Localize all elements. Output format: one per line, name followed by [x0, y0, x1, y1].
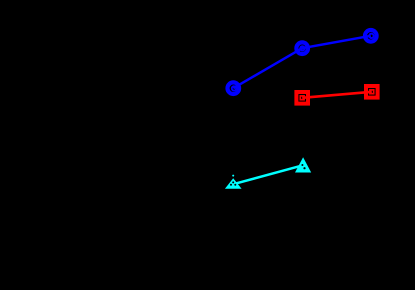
blue marker 2: small inner circle [300, 46, 304, 50]
blue marker 3: large open circle [365, 30, 377, 42]
blue marker 1: large open circle [228, 82, 240, 94]
cyan marker 1: filled triangle (left, squat) [225, 178, 242, 189]
cyan marker 2: interior dark dot lower [303, 167, 305, 169]
cyan marker 1: interior dark dot top [232, 181, 234, 183]
cyan data line (series 3) [233, 165, 303, 184]
blue marker 1: small inner circle [232, 86, 236, 90]
cyan marker 2: interior dark dot upper [301, 164, 303, 166]
cyan marker 1: interior dark dot right [234, 184, 236, 186]
blue marker 3: small inner circle [369, 34, 373, 38]
cyan marker 1: interior dark dot left [230, 184, 232, 186]
cyan marker 1: apex dot above [232, 175, 234, 177]
red marker 1: large open square [296, 92, 308, 104]
red marker 2: small inner square [370, 90, 374, 94]
red marker 1: small inner square [300, 96, 304, 100]
red data line (series 2) [302, 92, 372, 98]
red marker 2: large open square [366, 86, 378, 98]
cyan marker 2: filled triangle (right, large) [295, 157, 311, 172]
blue data line (series 1) [233, 36, 370, 88]
blue marker 2: large open circle [296, 42, 308, 54]
